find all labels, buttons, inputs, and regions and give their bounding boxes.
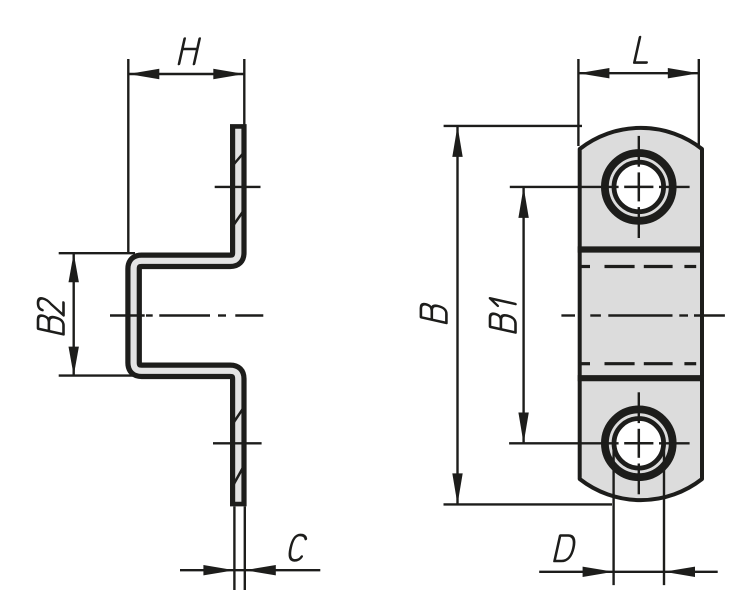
top hole: inner circle bbox=[614, 162, 664, 212]
hole axis tick through top flange bbox=[215, 186, 261, 188]
lower bend line (solid) bbox=[578, 375, 704, 381]
dimension B: extension line top bbox=[444, 125, 582, 127]
dimension B1: bottom arrowhead bbox=[518, 413, 528, 444]
dimension B1: label (rotated) bbox=[490, 298, 516, 332]
sheet profile light core bbox=[134, 129, 239, 502]
dimension C: right arrowhead (outside, pointing left) bbox=[245, 565, 276, 575]
dimension L: dimension line bbox=[578, 72, 698, 74]
dimension H: label bbox=[179, 39, 200, 65]
dimension D: extension line right (tangent to hole) bbox=[663, 443, 665, 585]
dimension C: label bbox=[288, 535, 307, 561]
dimension C: extension line right bbox=[244, 507, 246, 591]
dimension L: right arrowhead bbox=[668, 68, 699, 78]
dimension C: extension line left bbox=[233, 507, 235, 591]
dimension B: dimension line bbox=[456, 126, 458, 505]
dimension B2: dimension line bbox=[72, 253, 74, 375]
bottom hole: horizontal centre line + B1 extension bbox=[509, 442, 689, 444]
dimension D: dimension line bbox=[539, 571, 718, 573]
hatch mark on bottom flange (lower) bbox=[234, 468, 243, 485]
dimension L: label bbox=[634, 37, 652, 63]
bottom hole: centre cross bbox=[624, 429, 653, 458]
top hole: horizontal centre line + B1 extension bbox=[510, 186, 690, 188]
centre line of left view (dash-dot) bbox=[110, 314, 263, 316]
dimension H: left arrowhead bbox=[128, 69, 159, 79]
dimension B: label (rotated) bbox=[421, 302, 447, 323]
dimension B1: dimension line bbox=[522, 187, 524, 444]
dimension L: left arrowhead bbox=[578, 68, 609, 78]
dimension L: extension line left bbox=[577, 59, 579, 146]
hatch mark on bottom flange (upper) bbox=[234, 409, 243, 423]
hole axis tick through bottom flange bbox=[213, 442, 262, 444]
dimension D: left arrowhead (outside, pointing right) bbox=[583, 567, 614, 577]
top hole: vertical centre line bbox=[638, 136, 640, 238]
dimension H: dimension line bbox=[128, 73, 244, 75]
dimension D: right arrowhead (outside, pointing left) bbox=[664, 567, 695, 577]
dimension B: bottom arrowhead bbox=[452, 473, 462, 504]
centre line of right view (dash-dot, horizontal) bbox=[561, 314, 725, 316]
dimension C: dimension line bbox=[180, 569, 320, 571]
upper bend line (dashed) bbox=[580, 265, 697, 268]
bottom hole: vertical centre line bbox=[638, 392, 640, 494]
dimension B2: extension line top bbox=[59, 252, 135, 254]
hatch mark on top flange (lower) bbox=[234, 212, 243, 226]
top hole: centre cross bbox=[624, 172, 653, 201]
dimension B: extension line bottom bbox=[444, 503, 613, 505]
dimension B2: bottom arrowhead bbox=[69, 347, 79, 376]
dimension B1: top arrowhead bbox=[518, 187, 528, 218]
dimension H: right arrowhead bbox=[213, 69, 244, 79]
dimension B2: top arrowhead bbox=[69, 253, 79, 282]
dimension D: extension line left (tangent to hole) bbox=[612, 443, 614, 585]
sheet profile dark outline (Z-shaped strap cross-section) bbox=[134, 124, 239, 506]
dimension B: top arrowhead bbox=[452, 126, 462, 157]
hatch mark on top flange (upper) bbox=[234, 154, 243, 165]
dimension L: extension line right bbox=[698, 59, 700, 146]
dimension B2: label (rotated) bbox=[38, 297, 64, 334]
bottom hole: outer circle bbox=[605, 409, 673, 477]
top hole: outer circle bbox=[605, 153, 673, 221]
dimension C: left arrowhead (outside, pointing right) bbox=[203, 565, 234, 575]
plate body (rounded-end strap) bbox=[580, 128, 702, 500]
dimension H: extension line left bbox=[127, 59, 129, 254]
dimension D: label bbox=[555, 536, 577, 562]
dimension B2: extension line bottom bbox=[59, 374, 135, 376]
dimension H: extension line right bbox=[243, 59, 245, 125]
lower bend line (dashed) bbox=[580, 362, 697, 365]
bottom hole: inner circle bbox=[614, 419, 664, 469]
upper bend line (solid) bbox=[578, 246, 704, 252]
